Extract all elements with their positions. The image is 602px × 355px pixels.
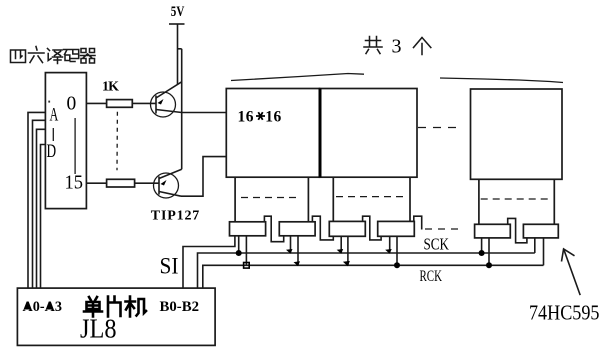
chip4 SCK pin: [389, 236, 391, 253]
wire A3 from MCU to decoder: [41, 145, 46, 289]
char 译: [48, 49, 63, 64]
module 1 board dashed line: [241, 197, 300, 199]
transistor Q2 base bar: [158, 177, 160, 195]
svg-text:D: D: [47, 141, 57, 162]
decoder input label |: [52, 128, 54, 141]
wire RCK from MCU: [203, 265, 544, 288]
wire Q1 collector to matrix row: [182, 112, 227, 114]
wire SI from MCU: [183, 236, 235, 288]
wire R2 to Q2 base: [135, 182, 159, 184]
module 1 connector board: [234, 177, 236, 222]
wire A2 from MCU to decoder: [37, 129, 46, 288]
resistor R1 1K: [107, 100, 133, 108]
freehand line over module 3: [440, 78, 563, 83]
junction arrow chip4-SCK: [385, 249, 392, 254]
char 片: [108, 297, 121, 317]
junction dot chip1-SCK: [236, 250, 242, 256]
transistor Q1 emitter arrow: [158, 99, 164, 105]
module divider thick line: [319, 89, 322, 178]
chip2 RCK pin: [297, 236, 299, 265]
transistor Q2 emitter arrow: [161, 180, 167, 186]
chip5 SCK pin: [481, 238, 483, 253]
char 机: [126, 297, 147, 317]
shift register chip 1: [230, 222, 266, 236]
wire 5V rail down: [177, 24, 179, 84]
char 单: [84, 297, 102, 317]
char 四: [11, 50, 26, 63]
dashes between module 2 and module 3: [418, 127, 459, 129]
junction arrow chip3-RCK: [343, 261, 350, 266]
label 共 3 个 (3 in total): [364, 35, 431, 57]
junction arrow chip2-RCK: [294, 261, 301, 266]
svg-text:RCK: RCK: [420, 268, 443, 285]
svg-text:15: 15: [65, 173, 84, 194]
chip6 SCK pin: [534, 238, 536, 253]
label 单片机 (microcontroller): [84, 297, 146, 317]
wire decoder output 15 to R2: [86, 182, 106, 184]
transistor Q1 emitter: [156, 82, 182, 98]
arrowhead: [562, 249, 575, 262]
decoder internal range line: [74, 118, 76, 174]
asterisk star: [256, 112, 265, 120]
svg-text:SCK: SCK: [424, 234, 450, 253]
wire Q2 collector run: [181, 157, 226, 197]
svg-text:1K: 1K: [102, 80, 119, 95]
chip2 SCK pin: [290, 236, 292, 253]
chip5 RCK pin: [488, 238, 490, 265]
shift register chip 5: [475, 224, 511, 238]
svg-text:3: 3: [392, 35, 402, 57]
label 四六译码器 (4-to-16 decoder caption): [11, 47, 96, 64]
char 码: [64, 50, 79, 62]
transistor Q2 emitter: [159, 169, 182, 178]
arrow pointing at 74HC595 chips: [564, 249, 581, 295]
LED matrix module 1 box: [226, 89, 319, 178]
svg-text:74HC595: 74HC595: [529, 301, 600, 325]
svg-text:TIP127: TIP127: [151, 209, 200, 224]
wire R1 to Q1 base: [132, 102, 156, 104]
decoder box U1: [45, 73, 86, 209]
svg-text:0: 0: [67, 94, 77, 115]
transistor Q1 collector: [156, 110, 182, 113]
shift register chip 6: [523, 224, 558, 238]
svg-text:16: 16: [238, 109, 255, 126]
daisy-chain link chip4 outgoing: [414, 216, 422, 229]
wire A1 from MCU to decoder: [33, 120, 46, 288]
daisy-chain link chip2 to chip3: [312, 216, 333, 240]
transistor Q1 (PNP) circle: [151, 92, 176, 117]
svg-text:A: A: [50, 105, 59, 126]
junction dot chip5-SCK: [479, 250, 485, 256]
wire A0 from MCU to decoder: [28, 112, 45, 288]
junction dot chip4-RCK: [394, 262, 400, 268]
junction arrow chip2-SCK: [286, 249, 293, 254]
chip3 RCK pin: [347, 236, 349, 265]
svg-text:B0-B2: B0-B2: [160, 299, 200, 315]
5V supply bar: [169, 23, 185, 25]
daisy-chain dashed continuation: [425, 228, 464, 230]
wire 5V rail jog: [178, 48, 182, 50]
junction square chip1-RCK: [244, 263, 250, 269]
svg-text:16: 16: [265, 109, 282, 126]
stray dot node: [48, 101, 50, 103]
dashed line (repeated rows indication): [116, 112, 118, 171]
char 器: [81, 49, 96, 64]
wire decoder output 0 to R1: [86, 102, 106, 104]
chip4 RCK pin: [396, 236, 398, 265]
chip1 SCK pin: [238, 236, 240, 253]
shift register chip 2: [279, 222, 315, 236]
junction arrow chip3-SCK: [337, 249, 344, 254]
module 2 connector board: [332, 177, 334, 221]
LED matrix module 2 box: [320, 89, 418, 178]
svg-text:JL8: JL8: [80, 314, 117, 344]
daisy-chain link chip1 to chip2: [264, 216, 283, 242]
chip3 SCK pin: [340, 236, 342, 253]
transistor Q2 collector: [159, 192, 181, 197]
svg-text:SI: SI: [160, 254, 179, 279]
wire SCK from MCU: [198, 253, 535, 288]
chip6 RCK pin: [543, 238, 545, 265]
chip1 RCK pin: [245, 236, 247, 265]
wire 5V rail to Q2 emitter: [181, 49, 183, 170]
char 个: [414, 38, 431, 55]
junction dot chip5-RCK: [486, 262, 492, 268]
LED matrix module 3 box: [471, 89, 563, 179]
char 六: [29, 47, 45, 63]
label 16*16: [238, 109, 282, 126]
transistor Q1 base bar: [155, 96, 157, 114]
shift register chip 4: [378, 221, 415, 236]
microcontroller box JL8: [17, 288, 215, 345]
module 3 connector board: [478, 179, 480, 224]
daisy-chain link chip3 to chip4: [363, 216, 382, 240]
daisy-chain link chip5 to chip6: [508, 218, 527, 242]
module 2 board dashed line: [336, 196, 407, 198]
solid A glyph fills: [24, 302, 53, 310]
freehand line over modules 1-2: [231, 74, 364, 81]
transistor Q2 (PNP) circle: [154, 173, 179, 198]
svg-text:5V: 5V: [171, 4, 185, 20]
module 3 board dashed line: [481, 198, 549, 200]
char 共: [364, 37, 382, 54]
shift register chip 3: [329, 221, 365, 236]
resistor R2: [107, 179, 135, 187]
